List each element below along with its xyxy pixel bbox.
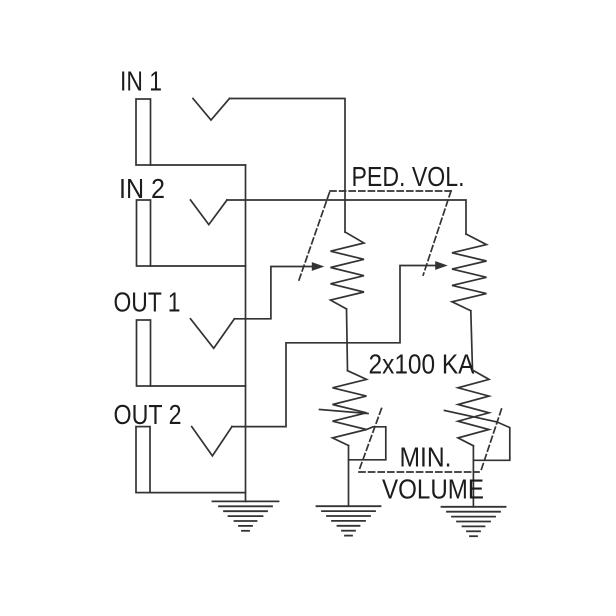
wire OUT2 sleeve to ground bus (150, 492, 246, 494)
jack J1 tip contact (193, 99, 230, 121)
wire OUT2 tip to pot P2 wiper (232, 266, 436, 427)
ground symbol at bus (213, 501, 279, 530)
svg-text:2x100 KA: 2x100 KA (369, 348, 476, 379)
wire P2 bottom to trimmer R4 (471, 311, 473, 370)
wire IN2 sleeve to ground bus (151, 265, 246, 267)
svg-text:IN 1: IN 1 (120, 66, 162, 97)
svg-text:OUT 2: OUT 2 (114, 399, 182, 430)
jack J2 tip contact (191, 200, 228, 225)
svg-text:MIN.: MIN. (400, 441, 452, 472)
wire P1 bottom to trimmer R3 (347, 309, 348, 371)
wire ground bus (245, 165, 247, 501)
jack J3 sleeve body (OUT 1) (137, 320, 151, 386)
wire R3 bottom to ground (348, 446, 350, 507)
ground symbol under R4 (442, 507, 506, 536)
wire IN1 tip to pot P1 top (230, 99, 346, 233)
svg-text:OUT 1: OUT 1 (114, 286, 181, 317)
svg-text:VOLUME: VOLUME (382, 473, 484, 504)
jack J4 sleeve body (OUT 2) (136, 427, 150, 493)
trimmer R4 wiper loop to bottom terminal (445, 411, 510, 461)
potentiometer P2 resistor body (452, 234, 487, 311)
trimmer R3 wiper loop to bottom terminal (320, 410, 386, 460)
ground symbol under R3 (317, 506, 381, 535)
svg-text:PED. VOL.: PED. VOL. (352, 161, 465, 192)
trimmer R4 resistor body (458, 370, 489, 446)
dashed gang link R3-R4 (359, 409, 502, 473)
wire OUT1 sleeve to ground bus (151, 385, 246, 387)
potentiometer P2 wiper arrow (435, 261, 448, 270)
dashed gang link P1-P2 (299, 191, 451, 280)
jack J4 tip contact (192, 427, 232, 456)
wire IN1 sleeve to ground bus (151, 164, 246, 166)
potentiometer P1 wiper arrow (312, 262, 325, 271)
wire IN2 tip to pot P2 top (227, 200, 466, 234)
jack J2 sleeve body (IN 2) (137, 200, 151, 266)
trimmer R3 resistor body (333, 371, 367, 446)
jack J3 tip contact (191, 319, 235, 349)
potentiometer P1 resistor body (331, 232, 365, 309)
wire OUT1 tip to pot P1 wiper (234, 267, 313, 319)
jack J1 sleeve body (IN 1) (136, 99, 151, 165)
wire R4 bottom to ground (472, 446, 474, 507)
